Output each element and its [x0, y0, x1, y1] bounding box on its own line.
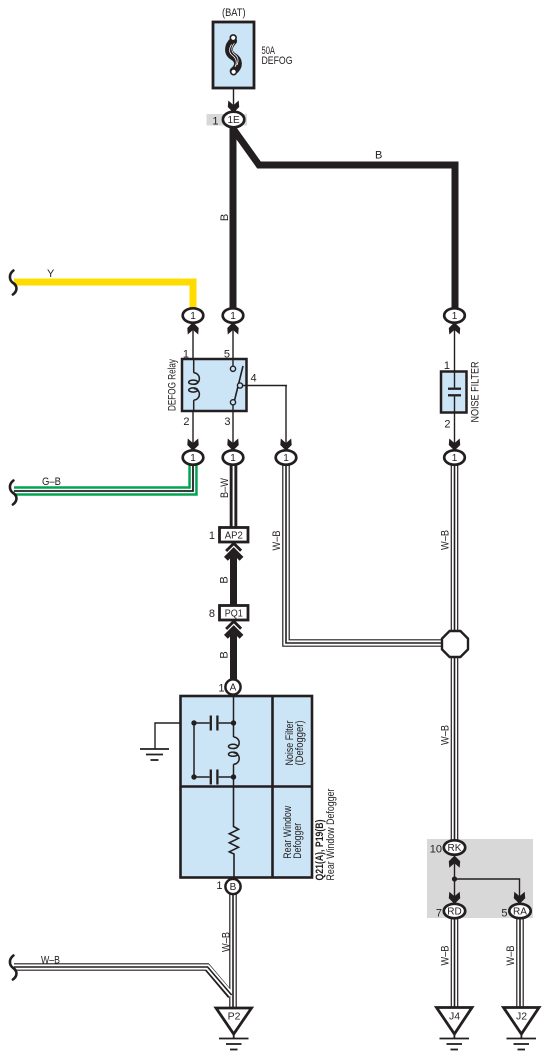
svg-text:NOISE FILTER: NOISE FILTER [469, 361, 481, 422]
svg-text:8: 8 [209, 608, 215, 620]
svg-text:4: 4 [251, 373, 257, 385]
svg-text:1E: 1E [227, 115, 240, 126]
svg-text:B: B [375, 150, 382, 162]
svg-text:5: 5 [224, 349, 230, 361]
svg-text:1: 1 [183, 349, 189, 361]
svg-text:1: 1 [283, 453, 289, 464]
svg-text:W–B: W–B [41, 955, 60, 967]
svg-text:B: B [219, 651, 231, 658]
svg-text:2: 2 [183, 416, 189, 428]
svg-text:1: 1 [452, 311, 458, 322]
svg-text:(BAT): (BAT) [222, 7, 246, 19]
svg-text:W–B: W–B [505, 946, 517, 966]
svg-text:B: B [219, 214, 231, 221]
svg-text:1: 1 [230, 453, 236, 464]
svg-text:J2: J2 [516, 1011, 527, 1023]
svg-text:Rear Window Defogger: Rear Window Defogger [325, 788, 337, 880]
svg-text:B: B [230, 882, 237, 893]
svg-text:AP2: AP2 [225, 530, 243, 542]
svg-text:1: 1 [452, 453, 458, 464]
svg-text:10: 10 [430, 844, 442, 856]
svg-text:3: 3 [224, 416, 230, 428]
svg-text:1: 1 [190, 311, 196, 322]
svg-text:1: 1 [190, 453, 196, 464]
svg-text:J4: J4 [449, 1011, 460, 1023]
svg-text:DEFOG: DEFOG [262, 55, 293, 67]
svg-text:W–B: W–B [439, 530, 451, 550]
svg-text:1: 1 [218, 683, 224, 695]
svg-text:W–B: W–B [221, 932, 233, 952]
svg-text:W–B: W–B [440, 725, 452, 745]
svg-text:RD: RD [447, 907, 461, 918]
svg-text:W–B: W–B [440, 946, 452, 966]
svg-text:P2: P2 [228, 1011, 241, 1023]
svg-text:1: 1 [212, 116, 218, 128]
svg-text:1: 1 [216, 880, 222, 892]
svg-text:1: 1 [444, 360, 450, 372]
svg-text:(Defogger): (Defogger) [294, 721, 306, 766]
svg-text:A: A [230, 683, 237, 694]
svg-text:B–W: B–W [219, 477, 231, 498]
svg-text:PQ1: PQ1 [225, 608, 243, 620]
svg-text:Defogger: Defogger [292, 823, 304, 859]
svg-text:DEFOG Relay: DEFOG Relay [167, 359, 179, 411]
svg-text:1: 1 [230, 311, 236, 322]
svg-text:RK: RK [448, 843, 462, 854]
svg-text:2: 2 [444, 419, 450, 431]
svg-text:RA: RA [513, 907, 527, 918]
svg-text:7: 7 [436, 908, 442, 920]
svg-text:B: B [219, 576, 231, 583]
svg-text:5: 5 [501, 908, 507, 920]
svg-text:W–B: W–B [271, 531, 283, 551]
svg-text:1: 1 [209, 530, 215, 542]
svg-text:G–B: G–B [42, 476, 61, 488]
svg-text:Y: Y [47, 268, 55, 280]
